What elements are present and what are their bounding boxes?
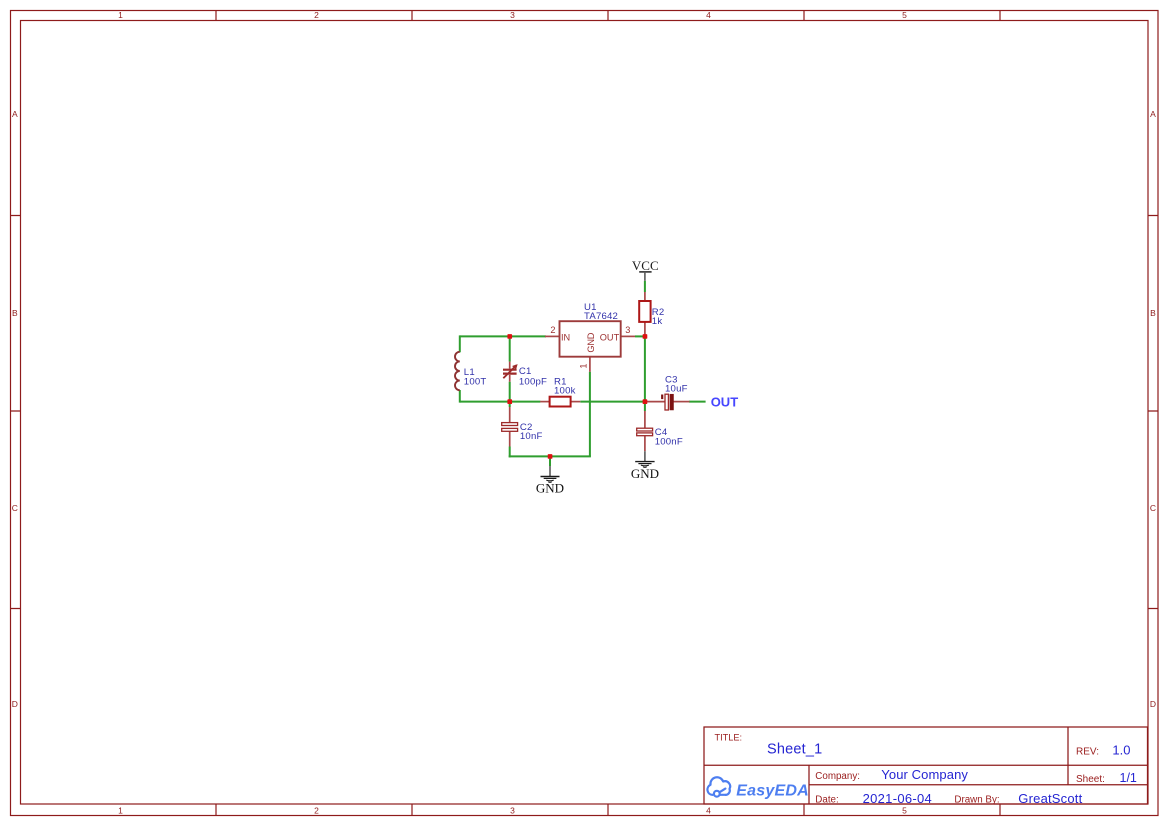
frame column labels bottom [118, 806, 907, 816]
svg-text:100nF: 100nF [655, 437, 683, 448]
svg-text:1: 1 [579, 363, 589, 368]
frame column ticks top [216, 11, 1000, 21]
wire IN net horizontal [460, 335, 546, 337]
svg-text:D: D [12, 699, 18, 709]
wire C4 top stub [644, 402, 646, 411]
wire left vertical upper (to L1) [459, 335, 461, 352]
svg-text:Sheet:: Sheet: [1076, 774, 1105, 785]
svg-text:VCC: VCC [632, 258, 659, 273]
svg-text:1: 1 [118, 10, 123, 20]
wire C1 bottom segment [509, 382, 511, 402]
svg-text:Sheet_1: Sheet_1 [767, 742, 822, 758]
capacitor C1 plates (variable) [503, 370, 517, 374]
junction node at ground rail [548, 454, 553, 459]
svg-text:C: C [12, 503, 18, 513]
svg-text:GND: GND [631, 466, 659, 481]
resistor R1 pin left [540, 401, 549, 403]
svg-text:1k: 1k [652, 316, 663, 327]
C1 arrow head [513, 365, 517, 369]
wire left vertical lower (from L1) [459, 390, 461, 403]
svg-text:5: 5 [902, 806, 907, 816]
svg-text:5: 5 [902, 10, 907, 20]
svg-text:1/1: 1/1 [1120, 771, 1137, 785]
capacitor C3 plate negative [670, 394, 674, 410]
svg-text:2: 2 [550, 325, 555, 335]
wire R2 bottom junction vertical [644, 336, 646, 401]
svg-text:A: A [12, 109, 18, 119]
wire bottom ground rail [509, 455, 591, 457]
C3 polarity plus mark [661, 395, 663, 400]
capacitor C4 plates [637, 428, 653, 435]
svg-text:1.0: 1.0 [1112, 743, 1130, 758]
wire C3 to OUT label [689, 401, 706, 403]
capacitor C2 pin bottom [509, 431, 511, 446]
frame row ticks right [1148, 216, 1159, 609]
svg-text:IN: IN [561, 332, 570, 342]
svg-text:D: D [1150, 699, 1156, 709]
wire C2 top segment [509, 402, 511, 407]
capacitor C3 plate positive [665, 394, 668, 410]
ground symbol right (C4) [631, 451, 659, 481]
svg-text:4: 4 [706, 806, 711, 816]
frame column ticks bottom [216, 804, 1000, 816]
capacitor C3 pin right [674, 401, 690, 403]
svg-text:10nF: 10nF [520, 431, 543, 442]
svg-text:3: 3 [510, 10, 515, 20]
wire main horizontal R1 to junction [580, 401, 645, 403]
title block borders [704, 727, 1148, 804]
svg-text:3: 3 [625, 325, 630, 335]
resistor R1 body [550, 397, 571, 407]
capacitor C2 plates [502, 423, 518, 432]
frame row labels left [12, 109, 18, 709]
svg-text:B: B [1150, 308, 1156, 318]
svg-text:EasyEDA: EasyEDA [736, 782, 809, 799]
svg-text:GND: GND [586, 332, 596, 352]
resistor R2 pin top [644, 292, 646, 301]
svg-text:3: 3 [510, 806, 515, 816]
junction node at C1/C2/R1 [507, 399, 512, 404]
EasyEDA logo cloud [707, 777, 730, 796]
wire U1 GND pin1 vertical [589, 372, 591, 457]
svg-text:C: C [1150, 503, 1156, 513]
wire bottom-left horizontal [460, 401, 541, 403]
svg-text:GND: GND [536, 481, 564, 496]
svg-text:Date:: Date: [815, 795, 838, 806]
resistor R1 pin right [571, 401, 581, 403]
C1 variable arrow [503, 365, 516, 378]
svg-text:4: 4 [706, 10, 711, 20]
svg-text:GreatScott: GreatScott [1018, 791, 1082, 806]
svg-text:Drawn By:: Drawn By: [954, 795, 999, 806]
frame row ticks left [11, 216, 21, 609]
svg-text:OUT: OUT [711, 394, 739, 409]
capacitor C4 pin top [644, 411, 646, 428]
frame row labels right [1150, 109, 1156, 709]
wire OUT pin3 to junction [635, 335, 645, 337]
wire C1 top segment [509, 336, 511, 361]
svg-text:TA7642: TA7642 [584, 311, 618, 322]
svg-text:10uF: 10uF [665, 384, 688, 395]
wire C2 bottom segment [509, 447, 511, 458]
U1 pin 2 (IN) [545, 335, 560, 337]
svg-text:A: A [1150, 109, 1156, 119]
svg-text:2: 2 [314, 10, 319, 20]
svg-text:OUT: OUT [600, 332, 620, 342]
svg-text:B: B [12, 308, 18, 318]
resistor R2 pin bottom [644, 322, 646, 337]
U1 pin 1 (GND) [589, 357, 591, 372]
svg-text:TITLE:: TITLE: [715, 732, 743, 742]
capacitor C2 pin top [509, 407, 511, 423]
resistor R2 body [639, 301, 650, 322]
junction node at R1/C3/C4 [643, 399, 648, 404]
capacitor C3 pin left [646, 401, 665, 403]
capacitor C1 pin top [509, 362, 511, 369]
svg-text:2: 2 [314, 806, 319, 816]
svg-text:1: 1 [118, 806, 123, 816]
svg-text:100k: 100k [554, 386, 576, 397]
inductor L1 coil [455, 352, 460, 390]
junction node at IN/C1 top [507, 334, 512, 339]
svg-text:Company:: Company: [815, 771, 860, 782]
capacitor C1 pin bottom [509, 375, 511, 382]
VCC power symbol [632, 258, 659, 281]
svg-text:REV:: REV: [1076, 747, 1099, 758]
U1 pin 3 (OUT) [621, 335, 635, 337]
op-amp U1 TA7642 body [560, 321, 621, 357]
svg-text:Your Company: Your Company [881, 767, 968, 782]
svg-text:100pF: 100pF [519, 376, 547, 387]
ground symbol left (C2 rail) [536, 456, 564, 495]
svg-text:2021-06-04: 2021-06-04 [863, 791, 933, 806]
capacitor C4 pin bottom [644, 436, 646, 452]
junction node at R2/pin3 [643, 334, 648, 339]
wire VCC stub [644, 281, 646, 292]
frame column labels top [118, 10, 907, 20]
svg-text:100T: 100T [464, 376, 487, 387]
